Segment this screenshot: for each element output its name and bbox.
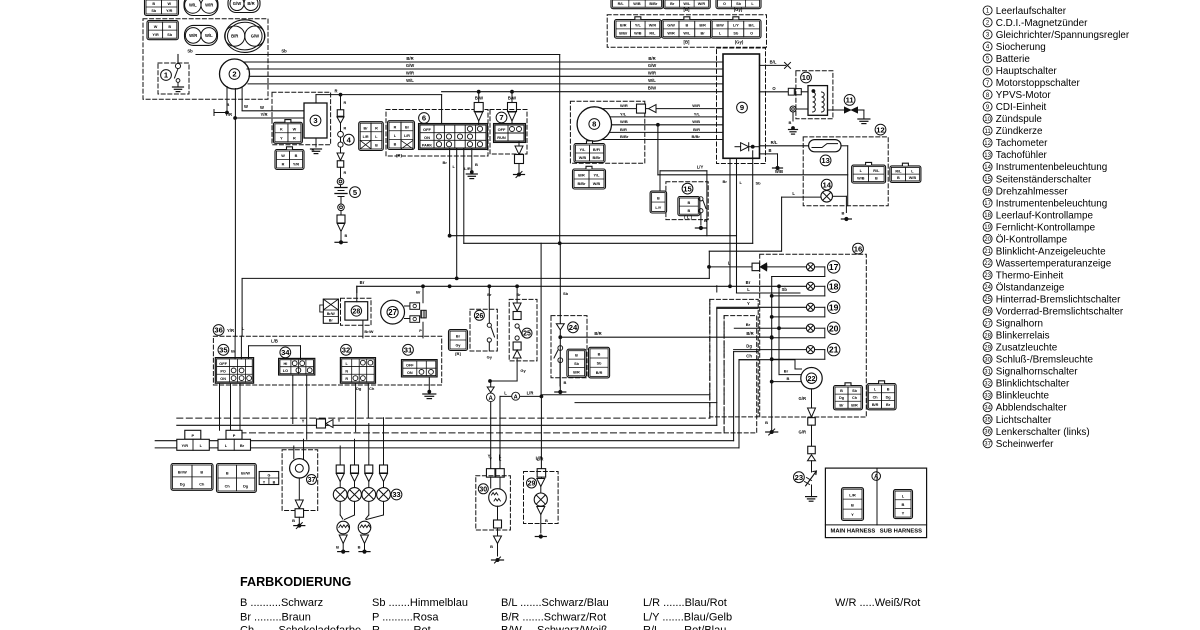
svg-text:36: 36 — [984, 429, 991, 435]
svg-text:26: 26 — [984, 309, 991, 315]
svg-text:A: A — [514, 395, 518, 401]
svg-text:22: 22 — [984, 261, 991, 267]
svg-text:OFF: OFF — [406, 364, 414, 368]
svg-text:B/R: B/R — [596, 371, 603, 375]
svg-text:P: P — [191, 433, 194, 438]
svg-text:OFF: OFF — [498, 127, 506, 132]
svg-text:Hauptschalter: Hauptschalter — [996, 66, 1058, 77]
svg-text:Y: Y — [902, 511, 905, 516]
svg-text:W/B: W/B — [593, 182, 601, 186]
svg-text:29: 29 — [528, 481, 536, 488]
svg-text:R/L: R/L — [618, 2, 625, 6]
svg-text:8: 8 — [592, 120, 596, 129]
svg-text:Br: Br — [670, 2, 675, 6]
svg-text:[B]: [B] — [684, 40, 691, 45]
svg-text:Br: Br — [723, 179, 728, 184]
svg-text:Zusatzleuchte: Zusatzleuchte — [996, 343, 1058, 354]
svg-text:P ..........Rosa: P ..........Rosa — [372, 612, 439, 624]
svg-text:Sb: Sb — [187, 49, 193, 54]
svg-text:B: B — [787, 376, 790, 381]
svg-text:Sb: Sb — [736, 2, 742, 6]
svg-text:L: L — [747, 287, 750, 292]
svg-text:Br: Br — [443, 160, 448, 165]
svg-text:W/B: W/B — [634, 32, 642, 36]
svg-text:17: 17 — [829, 262, 839, 272]
svg-text:Br: Br — [746, 322, 751, 327]
svg-text:Br: Br — [839, 403, 844, 407]
svg-text:Schluß-/Bremsleuchte: Schluß-/Bremsleuchte — [996, 355, 1094, 366]
svg-text:CDI-Einheit: CDI-Einheit — [996, 102, 1047, 113]
svg-text:Instrumentenbeleuchtung: Instrumentenbeleuchtung — [996, 162, 1107, 173]
svg-text:G/W: G/W — [251, 34, 259, 39]
svg-text:B/R: B/R — [872, 403, 879, 407]
svg-text:W/R .....Weiß/Rot: W/R .....Weiß/Rot — [835, 597, 920, 609]
svg-text:Motorstoppschalter: Motorstoppschalter — [996, 78, 1081, 89]
svg-text:Y: Y — [851, 512, 854, 517]
svg-text:Ch .......Schokoladefarbe: Ch .......Schokoladefarbe — [240, 625, 361, 630]
svg-text:B: B — [598, 352, 601, 356]
svg-text:L: L — [728, 261, 731, 266]
svg-text:Gleichrichter/Spannungsregler: Gleichrichter/Spannungsregler — [996, 30, 1130, 41]
svg-text:A: A — [874, 475, 879, 481]
svg-text:R: R — [394, 125, 397, 129]
svg-text:B: B — [475, 162, 478, 167]
svg-text:B/R: B/R — [851, 403, 858, 407]
svg-text:R: R — [293, 136, 296, 140]
svg-text:W/R: W/R — [205, 3, 213, 8]
svg-text:Y/L: Y/L — [620, 111, 627, 116]
svg-text:G/W: G/W — [648, 63, 656, 68]
svg-text:B: B — [687, 201, 690, 205]
svg-text:B: B — [394, 143, 397, 147]
svg-text:23: 23 — [984, 273, 991, 279]
svg-text:W/R: W/R — [667, 32, 675, 36]
svg-text:W: W — [293, 127, 297, 131]
svg-text:L/R .......Blau/Rot: L/R .......Blau/Rot — [643, 597, 727, 609]
svg-text:W/R: W/R — [189, 33, 197, 38]
svg-text:B/Br: B/Br — [649, 2, 658, 6]
svg-text:K: K — [280, 127, 283, 131]
svg-text:12: 12 — [984, 141, 991, 147]
svg-text:P: P — [233, 433, 236, 438]
svg-text:30: 30 — [984, 357, 991, 363]
svg-text:W/R: W/R — [698, 2, 706, 6]
svg-text:B/R: B/R — [594, 331, 601, 336]
svg-text:(Gy): (Gy) — [734, 7, 743, 12]
svg-text:Lichtschalter: Lichtschalter — [996, 415, 1052, 426]
svg-text:B: B — [292, 518, 295, 523]
svg-text:Ch: Ch — [225, 484, 231, 488]
svg-text:PARK: PARK — [422, 144, 433, 148]
svg-text:R/L .......Rot/Blau: R/L .......Rot/Blau — [643, 625, 726, 630]
svg-text:33: 33 — [392, 490, 400, 499]
svg-text:L/Y: L/Y — [655, 206, 661, 210]
svg-text:Vorderrad-Bremslichtschalter: Vorderrad-Bremslichtschalter — [996, 307, 1124, 318]
svg-text:Ch: Ch — [199, 482, 205, 486]
svg-text:B: B — [152, 2, 155, 6]
svg-text:W: W — [154, 25, 158, 29]
svg-text:Ölstandanzeige: Ölstandanzeige — [996, 282, 1065, 293]
svg-text:( L ): ( L ) — [684, 215, 692, 220]
svg-text:N: N — [345, 370, 348, 374]
svg-text:27: 27 — [388, 308, 397, 317]
svg-text:W/L: W/L — [683, 32, 691, 36]
svg-text:Batterie: Batterie — [996, 54, 1031, 65]
svg-text:W/L: W/L — [406, 78, 414, 83]
svg-text:B/R: B/R — [648, 56, 655, 61]
svg-text:34: 34 — [984, 405, 991, 411]
svg-text:B/Br: B/Br — [620, 134, 629, 139]
svg-text:B/L: B/L — [749, 24, 756, 28]
svg-text:Sb: Sb — [563, 291, 569, 296]
svg-text:ON: ON — [424, 135, 430, 140]
svg-text:B: B — [875, 177, 878, 181]
svg-text:24: 24 — [984, 285, 991, 291]
svg-text:W/B: W/B — [857, 177, 865, 181]
svg-text:Dg: Dg — [356, 386, 362, 391]
svg-text:16: 16 — [984, 189, 991, 195]
svg-text:15: 15 — [984, 177, 991, 183]
svg-text:10: 10 — [984, 117, 991, 123]
svg-text:Blinkleuchte: Blinkleuchte — [996, 391, 1050, 402]
svg-text:18: 18 — [984, 213, 991, 219]
svg-text:Y/R: Y/R — [166, 9, 173, 13]
svg-text:Y: Y — [488, 454, 491, 459]
svg-text:Br: Br — [700, 32, 705, 36]
svg-text:13: 13 — [984, 153, 991, 159]
svg-text:Blinkerrelais: Blinkerrelais — [996, 331, 1050, 342]
svg-text:B: B — [789, 120, 792, 125]
svg-text:Zündkerze: Zündkerze — [996, 126, 1043, 137]
svg-text:W/R: W/R — [692, 103, 700, 108]
svg-text:W/L: W/L — [683, 2, 691, 6]
svg-text:SUB HARNESS: SUB HARNESS — [880, 528, 922, 534]
svg-text:Hinterrad-Bremslichtschalter: Hinterrad-Bremslichtschalter — [996, 295, 1121, 306]
svg-text:A: A — [489, 396, 494, 402]
svg-text:B/R: B/R — [406, 56, 413, 61]
svg-text:19: 19 — [984, 225, 991, 231]
svg-text:B/R: B/R — [693, 127, 700, 132]
svg-text:Gy: Gy — [455, 343, 461, 347]
svg-text:Y: Y — [338, 418, 341, 423]
svg-text:W/B: W/B — [620, 119, 628, 124]
svg-text:Br: Br — [886, 403, 891, 407]
svg-text:12: 12 — [876, 125, 884, 134]
svg-text:C.D.I.-Magnetzünder: C.D.I.-Magnetzünder — [996, 18, 1088, 29]
svg-text:B: B — [657, 196, 660, 200]
svg-text:Instrumentenbeleuchtung: Instrumentenbeleuchtung — [996, 198, 1107, 209]
svg-text:Dg: Dg — [180, 482, 186, 486]
svg-text:R: R — [344, 101, 347, 105]
svg-text:37: 37 — [984, 442, 991, 448]
svg-text:Br/W: Br/W — [241, 471, 250, 475]
svg-text:34: 34 — [281, 348, 290, 357]
svg-text:B: B — [336, 545, 339, 550]
svg-text:6: 6 — [422, 114, 426, 123]
svg-text:35: 35 — [984, 417, 991, 423]
svg-text:Lenkerschalter (links): Lenkerschalter (links) — [996, 427, 1090, 438]
svg-text:R/L: R/L — [873, 169, 880, 173]
svg-text:B: B — [564, 380, 567, 385]
svg-text:24: 24 — [569, 323, 578, 332]
svg-text:R: R — [282, 163, 285, 167]
svg-text:Leerlauf-Kontrollampe: Leerlauf-Kontrollampe — [996, 210, 1094, 221]
svg-text:31: 31 — [984, 369, 991, 375]
svg-text:FARBKODIERUNG: FARBKODIERUNG — [240, 575, 351, 589]
svg-text:B/W ....Schwarz/Weiß: B/W ....Schwarz/Weiß — [501, 625, 608, 630]
svg-text:Fernlicht-Kontrollampe: Fernlicht-Kontrollampe — [996, 222, 1096, 233]
svg-text:L: L — [499, 454, 502, 459]
svg-text:29: 29 — [984, 345, 991, 351]
svg-text:14: 14 — [984, 165, 991, 171]
svg-text:Y/R: Y/R — [182, 443, 189, 448]
svg-text:14: 14 — [822, 180, 831, 189]
svg-text:L: L — [792, 191, 795, 196]
svg-text:20: 20 — [984, 237, 991, 243]
svg-text:W: W — [244, 104, 248, 109]
svg-text:L/R: L/R — [464, 166, 471, 171]
svg-text:L: L — [504, 390, 507, 395]
svg-text:B: B — [168, 25, 171, 29]
svg-text:B: B — [273, 480, 276, 484]
svg-text:Br: Br — [784, 369, 789, 374]
svg-text:Zündspule: Zündspule — [996, 114, 1043, 125]
svg-text:10: 10 — [802, 73, 810, 82]
svg-text:W/L: W/L — [205, 33, 213, 38]
svg-text:Y: Y — [302, 419, 305, 424]
svg-text:B: B — [200, 471, 203, 475]
svg-text:[B]: [B] — [455, 351, 461, 356]
svg-text:W/B: W/B — [579, 156, 587, 160]
svg-text:17: 17 — [984, 201, 991, 207]
svg-text:Br .........Braun: Br .........Braun — [240, 612, 311, 624]
svg-text:(Gy): (Gy) — [735, 40, 744, 45]
svg-text:20: 20 — [829, 323, 839, 333]
svg-text:G/W: G/W — [406, 63, 414, 68]
svg-text:Y/L: Y/L — [694, 111, 701, 116]
svg-text:R: R — [344, 127, 347, 131]
svg-text:B/W: B/W — [648, 86, 656, 91]
svg-text:19: 19 — [829, 302, 839, 312]
svg-text:L/R: L/R — [404, 134, 410, 138]
svg-text:11: 11 — [846, 96, 855, 105]
svg-text:Blinklichtschalter: Blinklichtschalter — [996, 379, 1070, 390]
svg-text:RUN: RUN — [497, 135, 506, 140]
svg-text:B/R: B/R — [573, 370, 580, 374]
svg-text:B/Fl: B/Fl — [593, 148, 600, 152]
svg-text:B: B — [227, 102, 230, 107]
svg-text:W/B: W/B — [633, 2, 641, 6]
svg-text:R/L: R/L — [649, 32, 656, 36]
svg-text:B: B — [687, 209, 690, 213]
svg-text:YPVS-Motor: YPVS-Motor — [996, 90, 1052, 101]
svg-text:30: 30 — [479, 486, 487, 493]
svg-text:B/R .......Schwarz/Rot: B/R .......Schwarz/Rot — [501, 612, 606, 624]
svg-text:B: B — [358, 545, 361, 550]
svg-text:Thermo-Einheit: Thermo-Einheit — [996, 270, 1064, 281]
svg-text:Br: Br — [329, 319, 334, 323]
svg-text:L/Y: L/Y — [733, 24, 739, 28]
svg-text:Y/R: Y/R — [227, 328, 234, 333]
svg-text:W: W — [281, 154, 285, 158]
svg-text:W/R: W/R — [648, 70, 656, 75]
svg-text:B: B — [575, 354, 578, 358]
svg-text:Ch: Ch — [852, 396, 858, 400]
svg-text:HI: HI — [283, 362, 287, 366]
svg-text:B/R: B/R — [247, 1, 254, 6]
svg-text:B: B — [765, 420, 768, 425]
svg-text:Signalhornschalter: Signalhornschalter — [996, 367, 1079, 378]
svg-text:B: B — [545, 518, 548, 523]
svg-text:P: P — [419, 328, 422, 333]
svg-text:L/Y: L/Y — [697, 165, 704, 170]
svg-text:Br: Br — [487, 292, 492, 297]
svg-text:Y/R: Y/R — [225, 112, 232, 117]
svg-text:Br: Br — [240, 443, 245, 448]
svg-text:L/R: L/R — [363, 135, 369, 139]
svg-text:Br: Br — [416, 290, 421, 295]
svg-text:W/L: W/L — [648, 78, 656, 83]
svg-text:B: B — [887, 388, 890, 392]
svg-text:G/W: G/W — [233, 1, 241, 6]
svg-text:L/Y .......Blau/Gelb: L/Y .......Blau/Gelb — [643, 612, 732, 624]
svg-text:28: 28 — [353, 308, 361, 315]
svg-text:L/R: L/R — [536, 456, 543, 461]
svg-text:O: O — [750, 32, 753, 36]
svg-text:Y/R: Y/R — [293, 163, 300, 167]
svg-text:21: 21 — [984, 249, 991, 255]
svg-text:37: 37 — [308, 477, 316, 484]
svg-text:MAIN HARNESS: MAIN HARNESS — [831, 528, 876, 534]
svg-text:18: 18 — [829, 281, 839, 291]
svg-text:W/B: W/B — [775, 169, 783, 174]
svg-text:[B]: [B] — [396, 153, 402, 158]
svg-text:R: R — [345, 377, 348, 381]
svg-text:Scheinwerfer: Scheinwerfer — [996, 439, 1054, 450]
svg-text:G/W: G/W — [667, 24, 675, 28]
svg-text:B/Br: B/Br — [577, 182, 586, 186]
svg-text:B/R: B/R — [578, 174, 585, 178]
svg-text:B/R: B/R — [746, 331, 753, 336]
svg-text:OFF: OFF — [219, 362, 227, 366]
svg-text:W: W — [260, 105, 264, 110]
svg-text:32: 32 — [984, 381, 991, 387]
svg-text:B: B — [768, 148, 771, 153]
svg-text:L/R: L/R — [527, 390, 534, 395]
svg-text:B: B — [842, 211, 845, 216]
svg-text:PO: PO — [220, 370, 226, 374]
svg-text:Sb: Sb — [151, 9, 157, 13]
svg-text:Wassertemperaturanzeige: Wassertemperaturanzeige — [996, 258, 1112, 269]
svg-text:W/R: W/R — [649, 24, 657, 28]
svg-text:Sb: Sb — [167, 33, 173, 37]
svg-text:Öl-Kontrollampe: Öl-Kontrollampe — [996, 234, 1068, 245]
svg-text:15: 15 — [683, 184, 692, 193]
svg-text:Br: Br — [231, 348, 236, 353]
svg-text:36: 36 — [214, 326, 222, 335]
svg-text:Sb .......Himmelblau: Sb .......Himmelblau — [372, 597, 468, 609]
svg-text:B: B — [685, 24, 688, 28]
svg-text:W/B: W/B — [909, 176, 917, 180]
svg-text:B: B — [226, 471, 229, 475]
svg-text:Ch: Ch — [873, 395, 879, 399]
svg-text:ON: ON — [407, 371, 413, 375]
svg-text:B/L .......Schwarz/Blau: B/L .......Schwarz/Blau — [501, 597, 609, 609]
svg-text:R/L: R/L — [771, 140, 778, 145]
svg-text:Dg: Dg — [746, 343, 752, 348]
svg-text:13: 13 — [821, 156, 829, 165]
svg-text:R: R — [334, 89, 337, 94]
svg-text:2: 2 — [232, 70, 236, 79]
svg-text:Sb: Sb — [756, 181, 762, 186]
svg-text:G: G — [267, 473, 270, 477]
svg-text:Y/L: Y/L — [594, 174, 601, 178]
svg-text:9: 9 — [740, 103, 744, 112]
svg-text:7: 7 — [499, 113, 503, 122]
svg-text:B/R: B/R — [620, 24, 627, 28]
svg-text:B/Br: B/Br — [619, 32, 628, 36]
svg-text:Br: Br — [364, 126, 369, 130]
svg-text:Br/W: Br/W — [327, 312, 336, 316]
svg-text:23: 23 — [795, 473, 803, 482]
svg-text:B/W: B/W — [716, 24, 724, 28]
svg-text:L/R: L/R — [849, 492, 856, 497]
svg-text:Drehzahlmesser: Drehzahlmesser — [996, 186, 1069, 197]
svg-text:Gy: Gy — [520, 368, 526, 373]
svg-text:Abblendschalter: Abblendschalter — [996, 403, 1068, 414]
svg-text:Ch: Ch — [746, 354, 752, 359]
svg-text:Siocherung: Siocherung — [996, 42, 1046, 53]
svg-text:Y/L: Y/L — [580, 148, 587, 152]
svg-text:B ..........Schwarz: B ..........Schwarz — [240, 597, 323, 609]
svg-text:R: R — [344, 171, 347, 175]
svg-text:B: B — [490, 544, 493, 549]
svg-text:W: W — [167, 2, 171, 6]
svg-text:B: B — [851, 502, 854, 507]
svg-text:G/R: G/R — [799, 430, 806, 435]
svg-text:25: 25 — [984, 297, 991, 303]
svg-text:33: 33 — [984, 393, 991, 399]
svg-text:Sb: Sb — [597, 362, 603, 366]
svg-text:31: 31 — [404, 346, 413, 355]
svg-text:28: 28 — [984, 333, 991, 339]
svg-text:22: 22 — [808, 374, 816, 383]
svg-text:Sb: Sb — [281, 49, 287, 54]
svg-text:B/Br: B/Br — [692, 134, 701, 139]
svg-text:Dg: Dg — [243, 484, 249, 488]
svg-text:Seitenständerschalter: Seitenständerschalter — [996, 174, 1092, 185]
svg-text:B/R: B/R — [231, 34, 238, 39]
svg-text:Br: Br — [360, 280, 365, 285]
svg-text:Sb: Sb — [782, 287, 788, 292]
svg-text:Y/L: Y/L — [635, 24, 642, 28]
svg-text:Ch: Ch — [369, 386, 375, 391]
svg-text:L: L — [242, 326, 245, 331]
svg-text:B: B — [295, 154, 298, 158]
svg-text:O: O — [723, 2, 726, 6]
svg-text:B: B — [897, 176, 900, 180]
svg-text:16: 16 — [854, 244, 862, 253]
svg-text:Y/R: Y/R — [261, 112, 268, 117]
svg-text:W/R: W/R — [406, 70, 414, 75]
svg-text:B/Br: B/Br — [592, 156, 601, 160]
svg-text:OFF: OFF — [423, 127, 432, 132]
svg-text:B/R: B/R — [699, 24, 706, 28]
svg-text:21: 21 — [829, 345, 839, 355]
svg-text:[B]: [B] — [684, 7, 691, 12]
svg-text:Br: Br — [456, 335, 461, 339]
svg-text:Sb: Sb — [574, 362, 580, 366]
